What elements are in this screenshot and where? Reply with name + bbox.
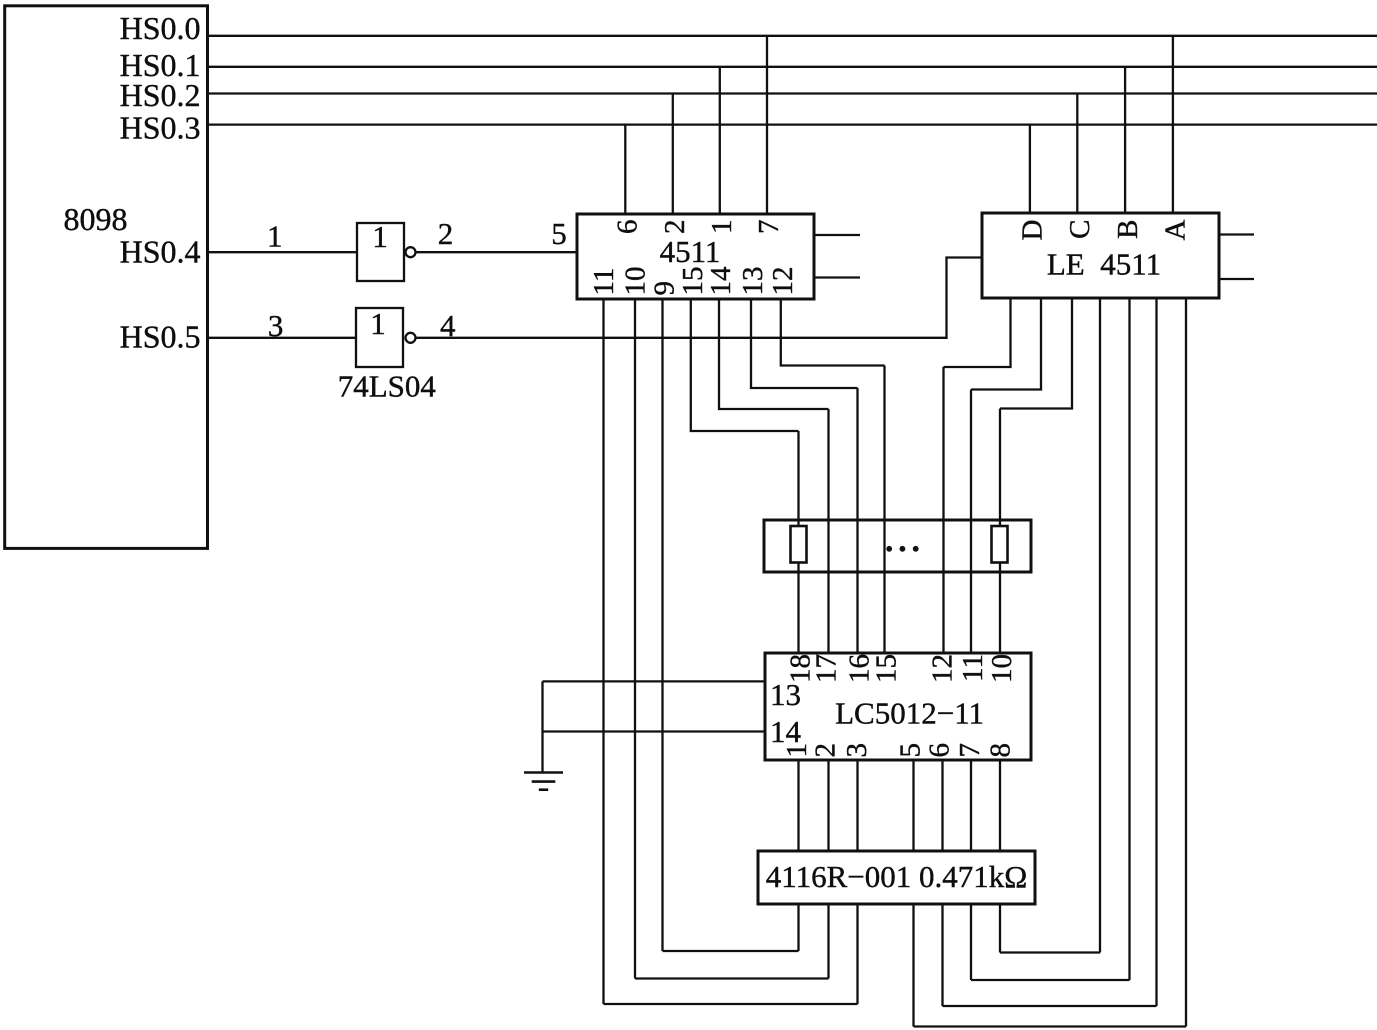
resistor RN1 right element xyxy=(992,526,1008,563)
wire RN2 out b down xyxy=(827,904,829,979)
wire U4 pin7 to RN2 xyxy=(970,760,972,851)
wire HS0.2 bus line xyxy=(208,92,1377,94)
wire U-link RN2 d to U3 seg4 xyxy=(914,1025,1187,1027)
svg-text:2: 2 xyxy=(659,220,691,235)
wire U3 segment pin down 4 xyxy=(1185,298,1187,1027)
wire column e through resistor network xyxy=(942,367,944,653)
svg-text:D: D xyxy=(1017,220,1049,241)
wire RN2 out d down xyxy=(912,904,914,1027)
svg-text:3: 3 xyxy=(841,743,873,758)
wire U2 pin12 step to column d xyxy=(781,299,885,366)
svg-text:8: 8 xyxy=(985,743,1017,758)
svg-text:13: 13 xyxy=(737,267,769,296)
wire U4 pin3 to RN2 xyxy=(856,760,858,851)
svg-text:2: 2 xyxy=(810,743,842,758)
display driver U4 LC5012-11 box xyxy=(765,653,1031,760)
svg-text:1: 1 xyxy=(706,220,738,235)
inverter G1 output bubble xyxy=(406,247,416,257)
wire U2 pin2 to HS0.2 xyxy=(672,94,674,215)
wire U3 segment pin down 1 xyxy=(1099,298,1101,953)
svg-text:12: 12 xyxy=(927,654,959,683)
wire column b through resistor network xyxy=(827,409,829,653)
svg-text:14: 14 xyxy=(705,266,737,296)
inverter G1 body (74LS04) xyxy=(357,223,404,281)
svg-text:1: 1 xyxy=(781,743,813,758)
wire U4 pin14 to ground xyxy=(543,730,766,732)
wire U2 right stub lower xyxy=(814,276,860,278)
wire column g through resistor network xyxy=(999,409,1001,654)
wire U2 pin6 to HS0.3 xyxy=(624,125,626,214)
inverter G2 output bubble xyxy=(406,333,416,343)
svg-text:LE 4511: LE 4511 xyxy=(1047,247,1161,282)
latch-decoder U3 LE 4511 box xyxy=(982,213,1219,298)
svg-text:7: 7 xyxy=(753,220,785,235)
svg-text:HS0.2: HS0.2 xyxy=(120,77,201,113)
inverter G2 body (74LS04) xyxy=(356,308,403,367)
svg-text:LC5012−11: LC5012−11 xyxy=(835,696,984,731)
wire HS0.0 bus line xyxy=(208,35,1377,37)
wire column a through resistor network xyxy=(797,431,799,653)
wire HS0.3 bus line xyxy=(208,123,1377,125)
resistor network RN2 4116R box xyxy=(758,851,1035,904)
svg-text:7: 7 xyxy=(954,743,986,758)
wire U-link RN2 g to U3 seg1 xyxy=(1000,951,1100,953)
wire HS0.1 bus line xyxy=(208,66,1377,68)
wire U2 right stub upper xyxy=(814,234,860,236)
wire U2 pin13 step to column c xyxy=(751,299,858,388)
wire U2 pin10 down xyxy=(634,299,636,979)
svg-text:4116R−001 0.471kΩ: 4116R−001 0.471kΩ xyxy=(766,859,1028,894)
svg-text:5: 5 xyxy=(551,216,567,251)
svg-text:74LS04: 74LS04 xyxy=(338,368,437,403)
wire HS0.4 to inverter G1 input xyxy=(208,251,358,253)
wire U2 pin14 step to column b xyxy=(719,299,829,409)
svg-text:6: 6 xyxy=(611,220,643,235)
svg-text:HS0.5: HS0.5 xyxy=(120,318,201,354)
wire U-link pin9 to RN2 a xyxy=(663,950,799,952)
wire U3 bottom pin step to column g xyxy=(1000,298,1072,409)
wire net 4: G2 output to U3 LE input xyxy=(416,258,983,338)
svg-text:8098: 8098 xyxy=(64,201,128,237)
svg-text:1: 1 xyxy=(267,219,283,254)
wire column f through resistor network xyxy=(970,390,972,654)
wire U3 right stub upper xyxy=(1219,233,1254,235)
svg-text:3: 3 xyxy=(268,308,284,343)
svg-text:9: 9 xyxy=(649,281,681,296)
dots of RN1 ellipsis xyxy=(886,546,918,552)
ground symbol xyxy=(524,773,563,790)
wire U2 pin9 down xyxy=(661,299,663,951)
wire U4 pin13 to ground xyxy=(543,680,766,682)
wire U3 segment pin down 2 xyxy=(1128,298,1130,980)
svg-text:HS0.0: HS0.0 xyxy=(120,10,201,46)
wire U4 pin1 to RN2 xyxy=(797,760,799,851)
wire U2 pin1 to HS0.1 xyxy=(719,67,721,214)
svg-text:4: 4 xyxy=(440,308,456,343)
wire U3 segment pin down 3 xyxy=(1155,298,1157,1006)
svg-text:15: 15 xyxy=(871,654,903,683)
svg-text:17: 17 xyxy=(811,654,843,683)
wire U-link RN2 f to U3 seg2 xyxy=(971,979,1130,981)
wire RN2 out c down xyxy=(856,904,858,1004)
wire RN2 out e down xyxy=(941,904,943,1006)
wire U2 pin15 step to column a xyxy=(691,299,799,431)
wire HS0.5 to inverter G2 input xyxy=(208,337,357,339)
wire U3 bottom pin step to column f xyxy=(971,298,1041,390)
wire U3 bottom pin step to column e xyxy=(944,298,1011,367)
wire U4 pin8 to RN2 xyxy=(999,760,1001,851)
wire U2 pin11 down xyxy=(602,299,604,1004)
svg-text:1: 1 xyxy=(372,219,388,254)
wire RN2 out f down xyxy=(970,904,972,980)
wire column c through resistor network xyxy=(856,388,858,653)
wire U-link pin11 to RN2 c xyxy=(604,1003,858,1005)
wire U3 pin C to HS0.2 xyxy=(1076,94,1078,214)
svg-text:B: B xyxy=(1112,220,1144,239)
wire U3 pin A to HS0.0 xyxy=(1172,36,1174,213)
wire RN2 out g down xyxy=(999,904,1001,953)
wire ground drop xyxy=(541,681,543,772)
decoder U2 4511 box xyxy=(577,214,814,299)
svg-text:4511: 4511 xyxy=(660,234,721,269)
wire U3 right stub lower xyxy=(1219,278,1254,280)
svg-text:11: 11 xyxy=(957,654,989,682)
wire U4 pin6 to RN2 xyxy=(941,760,943,851)
microcontroller U1 8098 box xyxy=(5,6,208,549)
svg-text:10: 10 xyxy=(986,654,1018,683)
wire U2 pin7 to HS0.0 xyxy=(766,36,768,214)
svg-text:5: 5 xyxy=(895,743,927,758)
wire U4 pin5 to RN2 xyxy=(912,760,914,851)
wire U3 pin B to HS0.1 xyxy=(1124,67,1126,213)
wire RN2 out a down xyxy=(797,904,799,951)
svg-text:12: 12 xyxy=(767,267,799,296)
svg-text:HS0.3: HS0.3 xyxy=(120,109,201,145)
resistor network RN1 box xyxy=(764,520,1031,572)
svg-text:1: 1 xyxy=(370,306,386,341)
wire U-link RN2 e to U3 seg3 xyxy=(943,1005,1157,1007)
wire column d through resistor network xyxy=(883,366,885,654)
resistor RN1 left element xyxy=(791,526,807,563)
svg-text:2: 2 xyxy=(438,216,454,251)
wire U3 pin D to HS0.3 xyxy=(1029,125,1031,213)
svg-text:HS0.4: HS0.4 xyxy=(120,234,201,270)
wire U4 pin2 to RN2 xyxy=(827,760,829,851)
wire U-link pin10 to RN2 b xyxy=(635,977,829,979)
svg-text:C: C xyxy=(1064,220,1096,239)
svg-text:6: 6 xyxy=(924,743,956,758)
svg-text:15: 15 xyxy=(677,267,709,296)
wire net 2: G1 output to U2 pin5 xyxy=(416,251,578,253)
svg-text:A: A xyxy=(1160,219,1192,240)
svg-text:11: 11 xyxy=(588,268,620,296)
svg-text:10: 10 xyxy=(620,267,652,296)
